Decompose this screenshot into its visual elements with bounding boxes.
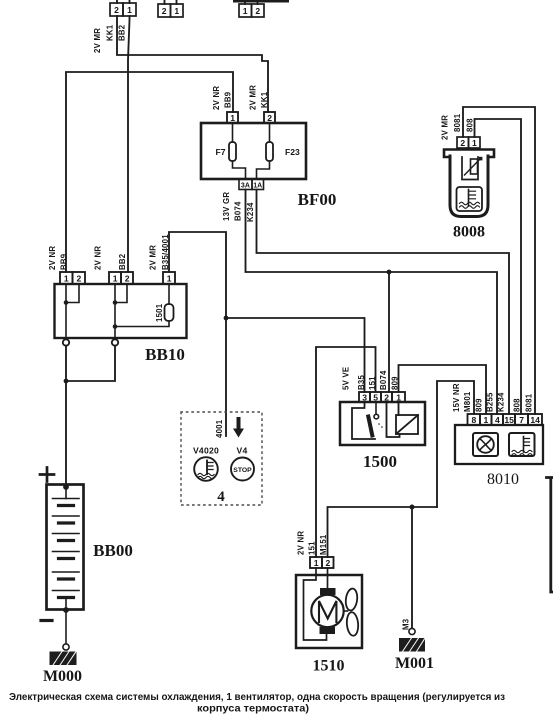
temperature icon in V4020 <box>198 461 214 479</box>
wire F7 to pin 3A <box>233 161 246 179</box>
wire 1510 pin1 internal <box>304 568 327 640</box>
wire 808 (8008 pin1 to 8010 pin7) <box>475 119 522 414</box>
svg-text:KK1: KK1 <box>260 91 269 108</box>
arrow (function 4 feed) <box>233 419 244 438</box>
svg-text:2V MR: 2V MR <box>93 28 102 53</box>
wire BB10 right terminal join <box>66 346 115 381</box>
svg-text:B255: B255 <box>486 392 495 412</box>
svg-text:8081: 8081 <box>525 393 534 412</box>
wire BB9 (BB10 conn1 pin1 to BF00 pin1) <box>66 72 233 272</box>
pin 3A of BF00 <box>239 179 252 190</box>
battery BB00 <box>47 485 84 610</box>
fan icon in 8010 <box>477 436 494 453</box>
svg-text:2: 2 <box>326 558 331 568</box>
svg-text:2: 2 <box>384 392 389 402</box>
switch contact of 1500 <box>352 402 383 439</box>
terminal of BB10 right <box>112 339 118 345</box>
svg-text:1: 1 <box>167 274 172 284</box>
svg-text:BB9: BB9 <box>224 91 233 108</box>
pin 7 of 8010 <box>515 414 528 425</box>
wire BB10 conn1 internal <box>66 284 79 341</box>
svg-text:B35/4001: B35/4001 <box>161 234 170 270</box>
fuse box BF00 <box>201 123 306 179</box>
svg-text:4: 4 <box>217 489 225 505</box>
ground M001 <box>399 638 425 652</box>
svg-text:корпуса термостата): корпуса термостата) <box>197 704 309 715</box>
pin 2 of 1500 <box>381 392 392 402</box>
svg-text:1: 1 <box>174 6 179 16</box>
thermometer icon in 8010 <box>512 437 532 457</box>
ground M000 <box>50 652 77 666</box>
pin 2 of BB10 conn2 <box>121 272 133 284</box>
pin 1 of 1510 <box>310 557 322 568</box>
motor M of 1510 <box>311 595 343 627</box>
svg-text:1: 1 <box>113 274 118 284</box>
svg-text:BB10: BB10 <box>145 345 185 364</box>
control unit 8010 <box>455 425 543 464</box>
svg-text:5V VE: 5V VE <box>342 367 351 390</box>
svg-text:STOP: STOP <box>233 467 252 474</box>
svg-text:1: 1 <box>484 415 489 425</box>
svg-text:15: 15 <box>504 415 514 425</box>
wire KK1 (C1 pin2 to BF00 pin2) <box>117 16 268 112</box>
wire M151 (1510 pin2 to ground junction) <box>328 507 438 557</box>
svg-text:2V NR: 2V NR <box>94 246 103 270</box>
svg-text:M001: M001 <box>395 655 434 672</box>
svg-text:15V NR: 15V NR <box>452 383 461 412</box>
svg-text:1510: 1510 <box>313 658 345 675</box>
svg-text:1: 1 <box>230 113 235 123</box>
connector C3 (top right, pins 1,2) <box>233 0 289 17</box>
wire 151 (1500 pin5 to 1510 pin1) <box>316 347 376 557</box>
svg-text:14: 14 <box>530 415 540 425</box>
brush bottom of motor <box>320 627 336 634</box>
wire 809 (1500 pin1 to 8010 pin1) <box>399 365 487 414</box>
pin 2 of 1510 <box>322 557 334 568</box>
svg-text:M3: M3 <box>402 618 411 630</box>
svg-text:2: 2 <box>460 138 465 148</box>
pin 14 of 8010 <box>528 414 542 425</box>
wire B35 (branch to 1500 pin 3) <box>226 318 365 392</box>
terminal of BB10 left <box>63 339 69 345</box>
svg-text:B074: B074 <box>379 370 388 390</box>
svg-text:2V MR: 2V MR <box>249 85 258 110</box>
connector C1 (top left, pins 2,1) <box>110 0 136 16</box>
fuse F7 <box>229 142 236 161</box>
svg-text:BB2: BB2 <box>118 24 127 41</box>
pin 1 of 1500 <box>392 392 405 402</box>
svg-text:1: 1 <box>127 5 132 15</box>
junction battery top <box>63 484 69 490</box>
svg-text:K234: K234 <box>246 202 255 222</box>
svg-text:K234: K234 <box>497 392 506 412</box>
terminal of M000 <box>63 644 69 650</box>
thermistor symbol in 8008 <box>465 157 483 175</box>
wire branch B074 to 1500 pin 2 <box>388 272 390 392</box>
pin 4 of 8010 <box>492 414 504 425</box>
svg-text:1500: 1500 <box>363 452 397 471</box>
svg-text:BB00: BB00 <box>93 541 133 560</box>
svg-text:2: 2 <box>255 6 260 16</box>
junction BB10 conn2 <box>113 300 118 305</box>
svg-text:2V NR: 2V NR <box>48 246 57 270</box>
svg-text:KK1: KK1 <box>106 24 115 41</box>
wire K234 (BF00 1A to 8010 pin15) <box>257 190 510 415</box>
svg-text:BB9: BB9 <box>60 253 69 270</box>
fan motor 1510 <box>296 575 362 648</box>
pin 1 of BB10 conn2 <box>109 272 121 284</box>
thermo switch body 8008 <box>444 150 494 217</box>
pin 1 of 8010 <box>480 414 492 425</box>
svg-text:8008: 8008 <box>453 224 485 241</box>
pin 3 of 1500 <box>359 392 370 402</box>
fan blades of 1510 <box>344 588 359 636</box>
svg-text:B074: B074 <box>234 201 243 221</box>
terminal of M001 <box>409 628 415 634</box>
junction BB10 fuse branch <box>113 324 118 329</box>
svg-text:8: 8 <box>472 415 477 425</box>
indicator lamp V4 STOP <box>231 458 254 481</box>
wire battery to ground M000 <box>65 610 67 644</box>
svg-text:808: 808 <box>513 398 522 412</box>
svg-text:7: 7 <box>519 415 524 425</box>
wire B35/4001 (BB10 conn3 to lamp box and 1500 pin3) <box>169 232 226 436</box>
wire BB10 internal to fuse 1501 <box>115 321 169 327</box>
svg-text:M000: M000 <box>43 668 82 685</box>
junction BB10 conn1 <box>64 300 69 305</box>
svg-text:3: 3 <box>362 392 367 402</box>
pin 2 of 8008 <box>457 137 469 148</box>
svg-text:13V GR: 13V GR <box>222 192 231 221</box>
pin 2 of BB10 conn1 <box>73 272 86 284</box>
indicator lamp V4020 <box>194 457 218 481</box>
pin 2 of BF00 <box>264 112 275 123</box>
svg-text:BB2: BB2 <box>118 253 127 270</box>
junction battery feed <box>64 379 69 384</box>
svg-text:2: 2 <box>114 5 119 15</box>
wire 1510 pin2 internal <box>327 568 329 588</box>
wire BB10 to battery positive <box>65 346 67 484</box>
svg-text:3A: 3A <box>241 182 250 189</box>
wire BB10 conn2 internal <box>115 284 127 341</box>
thermometer symbol in 8008 <box>460 190 480 209</box>
battery cells <box>53 487 80 610</box>
junction battery bottom <box>63 607 69 613</box>
wire to ground M001 <box>411 507 413 628</box>
svg-text:2V NR: 2V NR <box>212 86 221 110</box>
svg-text:1: 1 <box>64 274 69 284</box>
junction M001 <box>410 505 415 510</box>
svg-text:4: 4 <box>495 415 500 425</box>
svg-text:1: 1 <box>314 558 319 568</box>
wire BF00 pin1 to fuse F7 <box>232 123 234 142</box>
fuse 1501 <box>165 304 174 321</box>
minus sign of battery <box>41 619 52 622</box>
svg-text:V4: V4 <box>236 446 247 456</box>
fan function box in 8010 <box>473 433 498 456</box>
svg-text:4001: 4001 <box>215 419 224 438</box>
svg-text:1501: 1501 <box>155 303 164 322</box>
indicator group box 4 (dashed) <box>181 412 262 505</box>
svg-text:2: 2 <box>267 113 272 123</box>
svg-text:1: 1 <box>472 138 477 148</box>
wire BB2 (C1 pin1 to BB10 conn2 pin2) <box>128 16 130 272</box>
pin 15 of 8010 <box>503 414 515 425</box>
pin 1 of 8008 <box>469 137 481 148</box>
svg-text:V4020: V4020 <box>193 446 219 456</box>
svg-text:2V MR: 2V MR <box>441 115 450 140</box>
connector C2 (top middle, pins 2,1) <box>158 0 183 17</box>
liquid level box of 8008 <box>457 187 483 211</box>
svg-text:2V MR: 2V MR <box>149 245 158 270</box>
wire 8081 (8008 pin2 to 8010 pin14) <box>463 107 535 414</box>
svg-text:F23: F23 <box>285 147 300 157</box>
svg-text:1: 1 <box>243 6 248 16</box>
pin 8 of 8010 <box>468 414 481 425</box>
junction 4001/B35 <box>224 316 229 321</box>
svg-text:2: 2 <box>77 274 82 284</box>
svg-text:2V NR: 2V NR <box>297 531 306 555</box>
relay coil of 1500 <box>387 402 419 437</box>
junction B074 <box>387 270 392 275</box>
svg-text:8010: 8010 <box>487 471 519 488</box>
svg-text:BF00: BF00 <box>298 190 337 209</box>
temperature function box in 8010 <box>509 433 535 456</box>
thermistor compartment of 8008 <box>462 157 478 180</box>
svg-text:M801: M801 <box>463 391 472 412</box>
fuse F23 <box>266 142 273 161</box>
junction box BB10 <box>55 284 187 338</box>
svg-text:2: 2 <box>125 274 130 284</box>
wire BF00 pin2 to fuse F23 <box>269 123 271 142</box>
svg-text:F7: F7 <box>215 147 225 157</box>
svg-text:5: 5 <box>373 392 378 402</box>
svg-text:1A: 1A <box>253 182 262 189</box>
pin 1 of BF00 <box>227 112 238 123</box>
svg-text:808: 808 <box>466 118 475 132</box>
pin 1A of BF00 <box>252 179 264 190</box>
svg-text:Электрическая схема системы ох: Электрическая схема системы охлаждения, … <box>9 692 505 703</box>
pin 1 of BB10 conn3 <box>163 272 175 284</box>
pin 1 of BB10 conn1 <box>60 272 73 284</box>
wire BB10 conn3 to fuse 1501 <box>168 284 170 304</box>
svg-text:2: 2 <box>162 6 167 16</box>
svg-text:8081: 8081 <box>453 113 462 132</box>
brush top of motor <box>320 588 336 595</box>
wire M801 (8010 pin8 to ground junction) <box>437 381 474 507</box>
svg-text:B35: B35 <box>357 375 366 390</box>
relay 1500 <box>340 402 425 445</box>
wire B074 (BF00 3A to 1500 pin2 and 8010 pin4) <box>246 190 498 415</box>
svg-text:151: 151 <box>308 541 317 555</box>
svg-text:809: 809 <box>475 398 484 412</box>
wire F23 to pin 1A <box>257 161 270 179</box>
plus sign of battery <box>40 468 54 482</box>
pin 5 of 1500 <box>370 392 381 402</box>
wire to next page (right edge) <box>547 478 553 593</box>
svg-text:1: 1 <box>396 392 401 402</box>
